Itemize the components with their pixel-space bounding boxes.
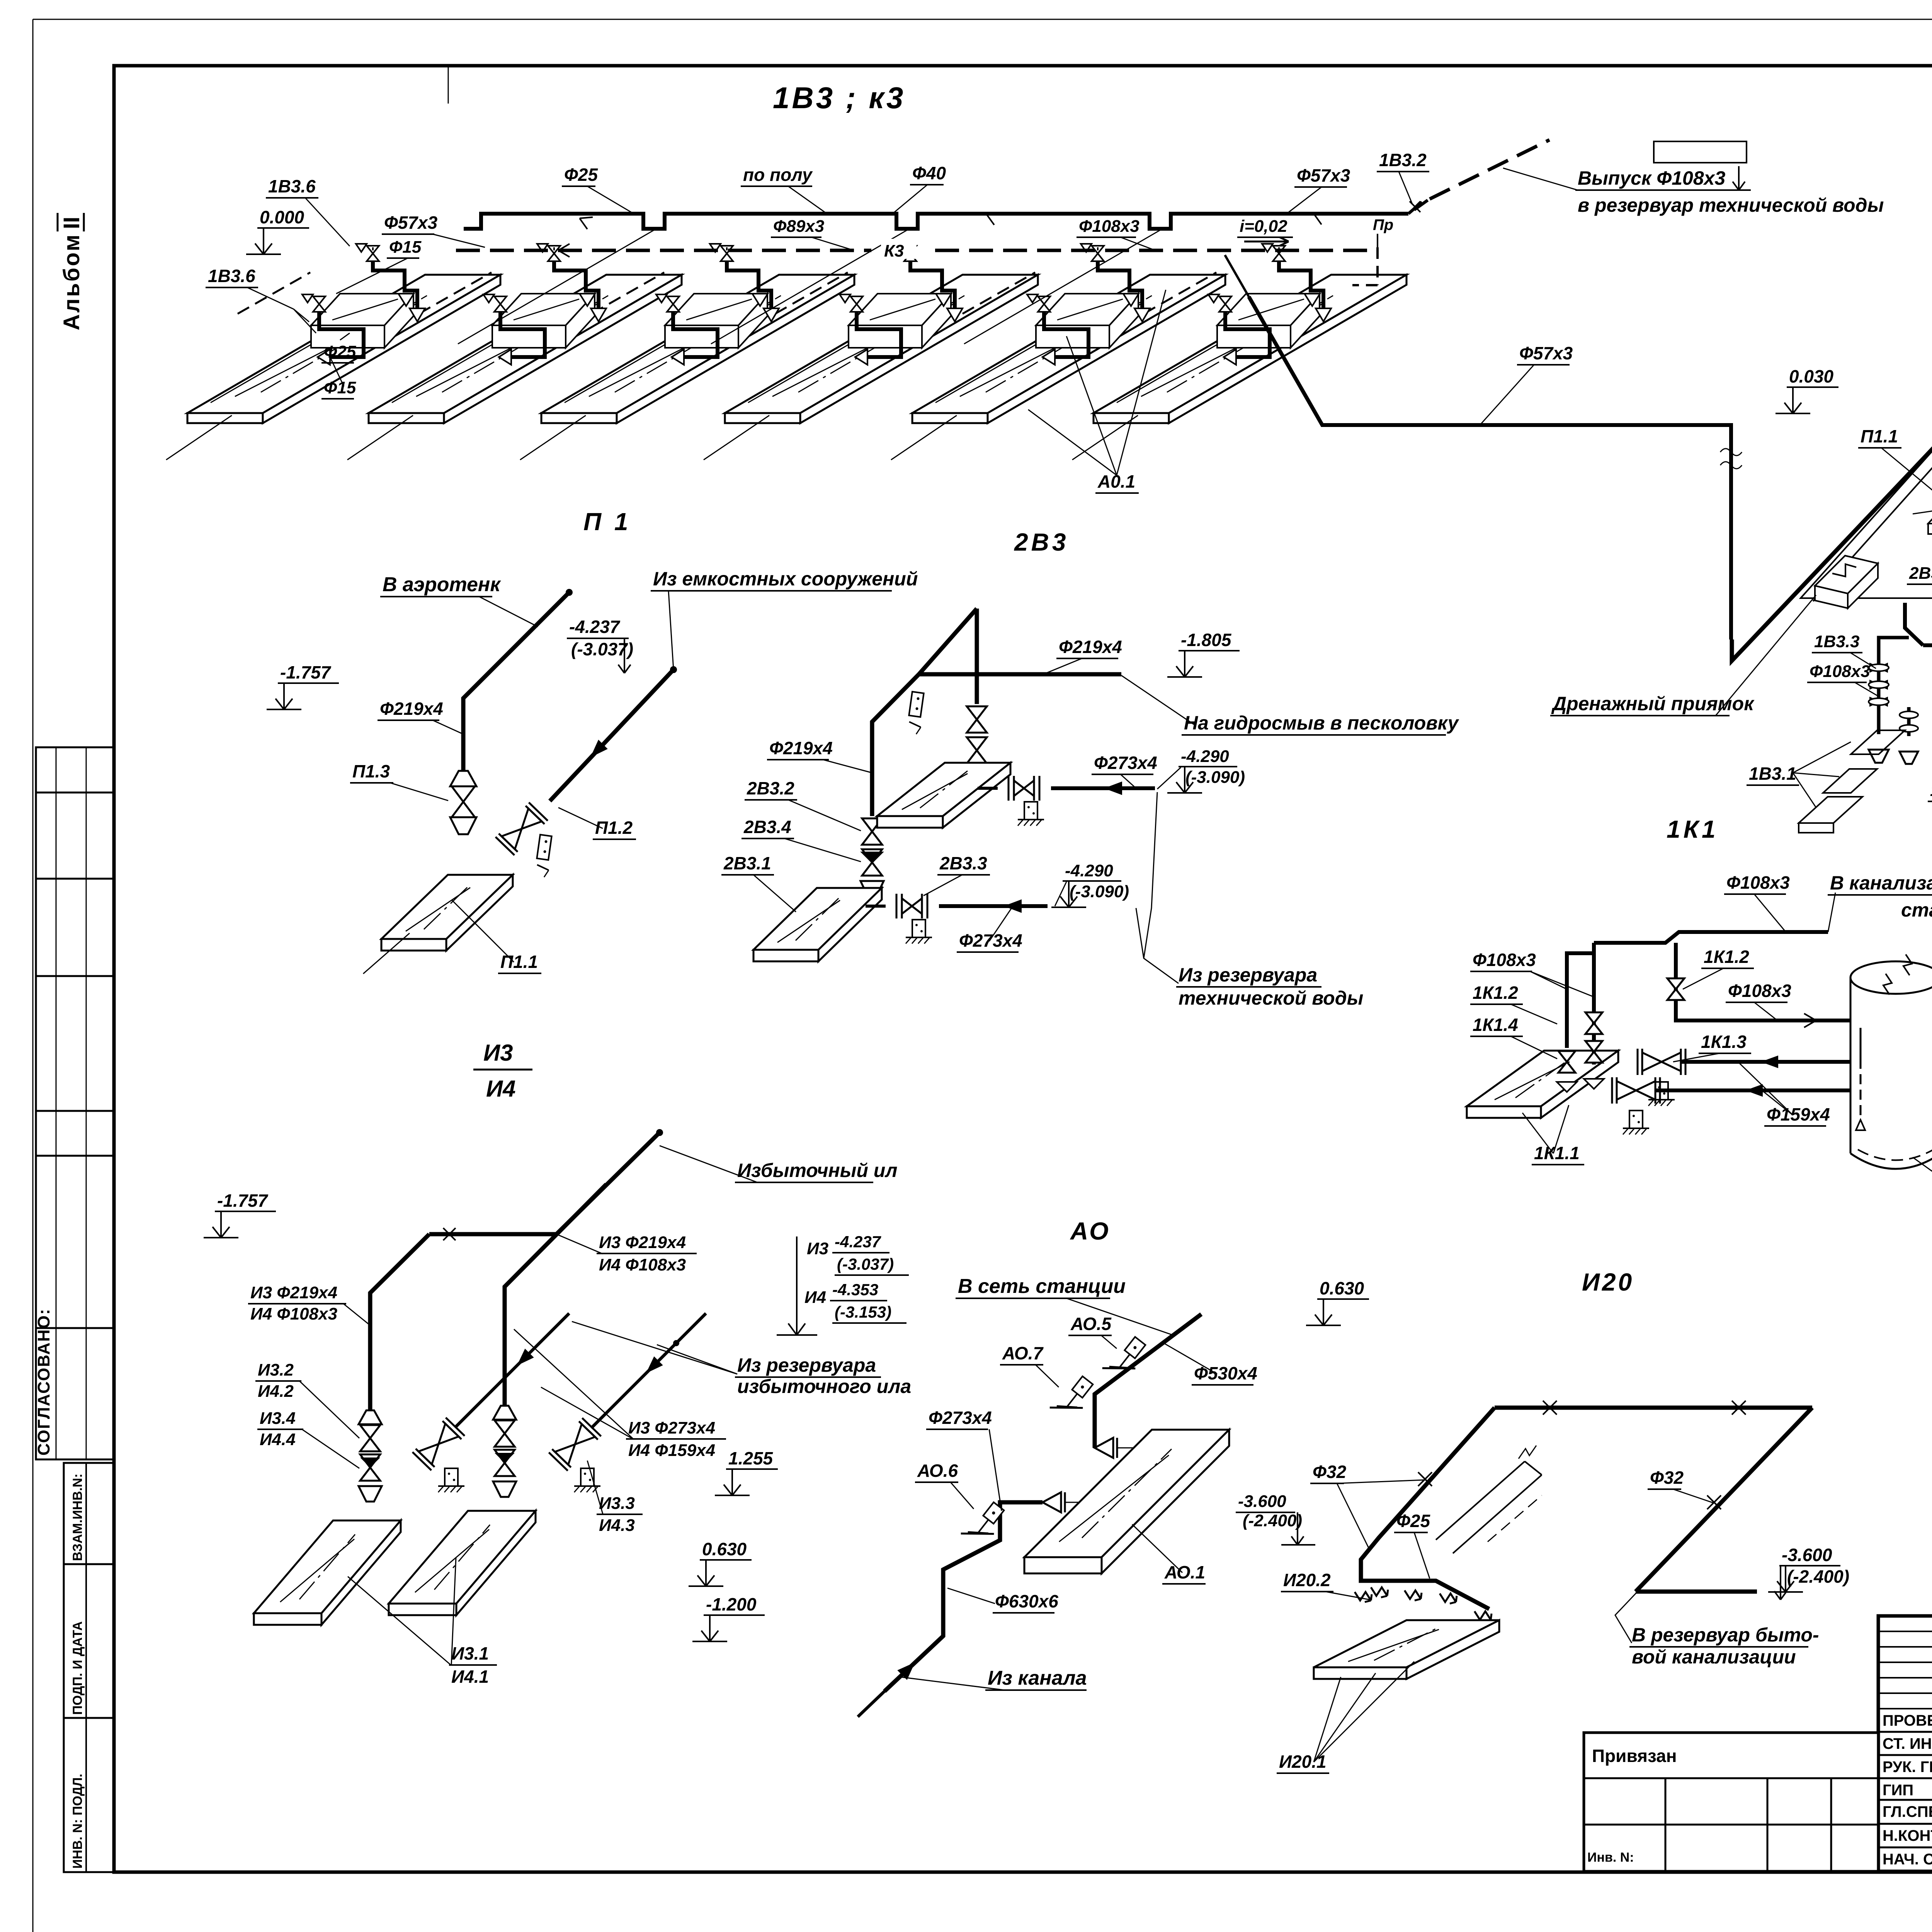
svg-text:-4.353: -4.353 [832, 1281, 878, 1299]
svg-text:Избыточный ил: Избыточный ил [737, 1160, 897, 1181]
svg-text:Инв. N:: Инв. N: [1587, 1850, 1634, 1865]
svg-text:(-3.090): (-3.090) [1185, 768, 1245, 787]
svg-text:2В3.1: 2В3.1 [1909, 564, 1932, 583]
svg-text:Ф108х3: Ф108х3 [1473, 950, 1536, 970]
svg-text:В канализационную сеть: В канализационную сеть [1830, 872, 1932, 894]
svg-text:-1.757: -1.757 [280, 662, 332, 682]
svg-text:1В3 ; к3: 1В3 ; к3 [773, 81, 905, 115]
svg-text:Н.КОНТР.: Н.КОНТР. [1883, 1827, 1932, 1844]
svg-text:И20.2: И20.2 [1283, 1570, 1331, 1590]
svg-text:АО.1: АО.1 [1164, 1562, 1205, 1582]
svg-text:-3.600: -3.600 [1238, 1492, 1286, 1511]
svg-text:П 1: П 1 [583, 508, 631, 536]
svg-text:П1.3: П1.3 [352, 761, 390, 781]
svg-text:И4.2: И4.2 [258, 1382, 294, 1401]
svg-text:Ф273х4: Ф273х4 [929, 1408, 992, 1428]
svg-text:Из канала: Из канала [988, 1667, 1087, 1689]
svg-text:И3.2: И3.2 [258, 1361, 294, 1379]
svg-text:И3 Ф219х4: И3 Ф219х4 [599, 1233, 686, 1252]
svg-text:К3: К3 [884, 241, 904, 260]
svg-text:На гидросмыв в песколовку: На гидросмыв в песколовку [1184, 712, 1459, 734]
svg-text:2В3.2: 2В3.2 [747, 778, 794, 798]
svg-text:ПРОВЕР.: ПРОВЕР. [1883, 1712, 1932, 1729]
svg-text:АО.7: АО.7 [1002, 1343, 1044, 1363]
svg-text:Из резервуара: Из резервуара [1179, 964, 1317, 986]
svg-text:технической воды: технической воды [1179, 987, 1363, 1009]
svg-text:-1.200: -1.200 [706, 1594, 757, 1614]
svg-text:Ф273х4: Ф273х4 [959, 930, 1022, 951]
svg-text:Ф15: Ф15 [324, 378, 356, 397]
svg-text:И3: И3 [483, 1040, 513, 1066]
svg-text:(-3.090): (-3.090) [1070, 882, 1129, 901]
svg-text:П1.1: П1.1 [1861, 426, 1898, 446]
svg-text:И4 Ф108х3: И4 Ф108х3 [250, 1304, 337, 1323]
svg-text:Ф219х4: Ф219х4 [380, 699, 443, 719]
svg-text:(-3.037): (-3.037) [837, 1255, 894, 1273]
svg-text:1К1.2: 1К1.2 [1704, 947, 1749, 967]
svg-text:Ф57х3: Ф57х3 [384, 213, 438, 233]
svg-text:И4.1: И4.1 [451, 1667, 489, 1687]
svg-text:Из емкостных сооружений: Из емкостных сооружений [653, 568, 918, 590]
svg-text:Ф32: Ф32 [1650, 1468, 1684, 1488]
svg-text:И3.4: И3.4 [260, 1409, 296, 1428]
svg-text:1В3.6: 1В3.6 [268, 176, 316, 196]
svg-text:И4: И4 [486, 1076, 516, 1102]
svg-text:ПОДП. И ДАТА: ПОДП. И ДАТА [70, 1621, 85, 1715]
svg-text:В сеть станции: В сеть станции [958, 1275, 1126, 1298]
svg-text:по полу: по полу [743, 165, 813, 185]
svg-text:Пр: Пр [1373, 216, 1393, 233]
svg-text:Ф108х3: Ф108х3 [1728, 981, 1791, 1001]
svg-text:Из резервуара: Из резервуара [737, 1354, 876, 1376]
svg-text:-4.237: -4.237 [569, 617, 621, 637]
svg-text:ГЛ.СПЕЦ.: ГЛ.СПЕЦ. [1883, 1803, 1932, 1820]
svg-text:1.255: 1.255 [728, 1448, 774, 1468]
svg-text:-4.290: -4.290 [1181, 747, 1229, 766]
svg-text:СОГЛАСОВАНО:: СОГЛАСОВАНО: [34, 1308, 53, 1456]
svg-text:И3 Ф273х4: И3 Ф273х4 [628, 1418, 715, 1437]
svg-text:Ф630х6: Ф630х6 [995, 1591, 1058, 1611]
svg-text:-4.237: -4.237 [835, 1233, 881, 1251]
svg-text:1К1.3: 1К1.3 [1701, 1032, 1747, 1052]
svg-text:1К1: 1К1 [1667, 815, 1719, 843]
svg-text:-1.805: -1.805 [1181, 630, 1232, 650]
svg-text:Ф15: Ф15 [389, 238, 422, 257]
svg-text:II: II [59, 217, 84, 229]
svg-text:И20: И20 [1582, 1268, 1634, 1296]
svg-text:В аэротенк: В аэротенк [383, 573, 501, 596]
svg-text:И3: И3 [807, 1239, 828, 1258]
svg-text:-3.600: -3.600 [1782, 1545, 1832, 1565]
svg-text:1В3.3: 1В3.3 [1814, 632, 1859, 651]
svg-text:АО.6: АО.6 [917, 1461, 958, 1481]
svg-text:Ф219х4: Ф219х4 [769, 738, 833, 758]
svg-text:Ф159х4: Ф159х4 [1767, 1104, 1830, 1124]
svg-text:0.000: 0.000 [260, 207, 304, 227]
svg-text:И4 Ф108х3: И4 Ф108х3 [599, 1255, 686, 1274]
svg-text:Ф40: Ф40 [912, 163, 946, 183]
svg-text:И3.3: И3.3 [599, 1494, 635, 1513]
svg-text:АО: АО [1070, 1217, 1111, 1245]
svg-text:В резервуар быто-: В резервуар быто- [1632, 1624, 1819, 1646]
svg-text:ИНВ. N: ПОДЛ.: ИНВ. N: ПОДЛ. [70, 1774, 85, 1869]
svg-text:РУК. ГР.: РУК. ГР. [1883, 1759, 1932, 1776]
svg-text:1К1.1: 1К1.1 [1534, 1143, 1580, 1163]
svg-text:0.630: 0.630 [1320, 1278, 1364, 1298]
svg-text:2В3.4: 2В3.4 [743, 817, 791, 837]
svg-text:(-3.153): (-3.153) [835, 1303, 891, 1321]
svg-text:избыточного ила: избыточного ила [737, 1376, 911, 1397]
svg-text:1В3.6: 1В3.6 [208, 266, 255, 286]
svg-text:Выпуск Ф108х3: Выпуск Ф108х3 [1578, 167, 1725, 189]
svg-text:И3.1: И3.1 [451, 1643, 489, 1663]
svg-text:И4 Ф159х4: И4 Ф159х4 [628, 1441, 715, 1460]
svg-text:Ф273х4: Ф273х4 [1094, 753, 1157, 773]
svg-text:Привязан: Привязан [1592, 1746, 1677, 1766]
svg-text:вой канализации: вой канализации [1632, 1646, 1796, 1668]
svg-text:НАЧ. ОТД.: НАЧ. ОТД. [1883, 1851, 1932, 1868]
svg-text:И4: И4 [804, 1288, 826, 1307]
svg-text:И3 Ф219х4: И3 Ф219х4 [250, 1283, 337, 1302]
svg-text:в резервуар технической воды: в резервуар технической воды [1578, 194, 1884, 216]
svg-text:Ф25: Ф25 [564, 165, 598, 185]
svg-text:2В3: 2В3 [1014, 528, 1069, 556]
svg-text:i=0,02: i=0,02 [1240, 217, 1287, 236]
svg-text:Ф89х3: Ф89х3 [773, 217, 824, 236]
svg-text:2В3.1: 2В3.1 [723, 853, 771, 873]
svg-text:Ф25: Ф25 [324, 342, 356, 361]
svg-text:Ф219х4: Ф219х4 [1059, 637, 1122, 657]
svg-text:1В3.2: 1В3.2 [1379, 150, 1427, 170]
svg-text:И4.4: И4.4 [260, 1430, 296, 1449]
svg-text:-4.290: -4.290 [1065, 861, 1113, 880]
svg-text:2В3.3: 2В3.3 [939, 853, 987, 873]
svg-text:1К1.2: 1К1.2 [1473, 983, 1518, 1003]
svg-text:1В3.4: 1В3.4 [1930, 781, 1932, 800]
svg-text:Ф108х3: Ф108х3 [1079, 217, 1139, 236]
svg-text:Дренажный приямок: Дренажный приямок [1551, 693, 1755, 714]
svg-text:0.030: 0.030 [1789, 366, 1834, 386]
svg-text:Ф57х3: Ф57х3 [1519, 343, 1573, 363]
svg-text:(-2.400): (-2.400) [1787, 1566, 1849, 1587]
svg-text:ВЗАМ.ИНВ.N:: ВЗАМ.ИНВ.N: [70, 1473, 85, 1561]
svg-text:станции: станции [1901, 899, 1932, 921]
svg-text:И4.3: И4.3 [599, 1516, 635, 1535]
svg-text:Ф32: Ф32 [1313, 1462, 1346, 1482]
svg-text:0.630: 0.630 [702, 1539, 747, 1559]
svg-text:Ф108х3: Ф108х3 [1726, 872, 1790, 893]
svg-text:АО.5: АО.5 [1070, 1314, 1112, 1334]
svg-text:Ф25: Ф25 [1396, 1511, 1430, 1531]
svg-text:Ф108х3: Ф108х3 [1810, 662, 1870, 681]
svg-text:(-2.400): (-2.400) [1243, 1511, 1302, 1530]
svg-text:Альбом: Альбом [59, 233, 84, 330]
svg-text:1В3.1: 1В3.1 [1749, 764, 1796, 784]
svg-text:ГИП: ГИП [1883, 1782, 1913, 1799]
svg-text:СТ. ИНЖ.: СТ. ИНЖ. [1883, 1735, 1932, 1752]
svg-text:-1.757: -1.757 [217, 1190, 269, 1211]
svg-text:1К1.4: 1К1.4 [1473, 1015, 1518, 1035]
svg-text:Ф57х3: Ф57х3 [1297, 165, 1350, 185]
